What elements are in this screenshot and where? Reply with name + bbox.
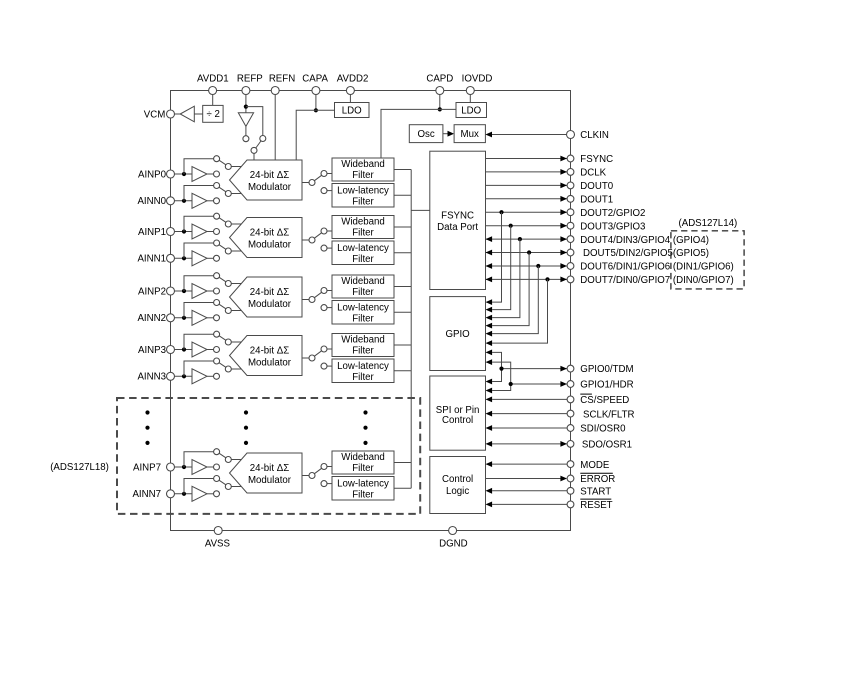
- pin AINP0: [138, 169, 175, 180]
- dashed group ADS127L18 extra channels 4-7: [117, 398, 420, 514]
- svg-text:AINN7: AINN7: [132, 489, 161, 500]
- pin SCLK/FLTR: [567, 409, 634, 420]
- wire AINN2 bypass: [184, 303, 214, 318]
- svg-text:Modulator: Modulator: [248, 358, 292, 369]
- svg-text:÷ 2: ÷ 2: [206, 109, 219, 120]
- switch SW3N (buffer bypass select): [219, 363, 231, 372]
- node buffer A3P output contact: [214, 347, 220, 353]
- svg-text:GPIO0/TDM: GPIO0/TDM: [580, 364, 633, 375]
- node low-latency 3 input contact: [321, 363, 327, 369]
- svg-text:RESET: RESET: [580, 500, 612, 511]
- svg-text:START: START: [580, 487, 611, 498]
- wire AINN to buffer: [174, 200, 192, 202]
- pin AINP2: [138, 286, 175, 297]
- modulator U1A (24-bit delta-sigma, channel 1): [230, 218, 303, 258]
- wire FSYNC net: [486, 156, 568, 162]
- junction AINP7: [182, 465, 186, 469]
- svg-text:AINN1: AINN1: [137, 254, 166, 265]
- wire DOUT6 to GPIO: [486, 266, 539, 337]
- ellipsis dots (channels 4-6 omitted): [244, 410, 248, 445]
- wire modulator output: [302, 475, 309, 477]
- svg-text:GPIO: GPIO: [445, 329, 470, 340]
- node AINP2 bypass contact: [214, 273, 220, 279]
- wire AINP2 bypass: [184, 276, 214, 291]
- svg-text:CLKIN: CLKIN: [580, 130, 609, 141]
- pin DOUT3/GPIO3: [567, 221, 645, 232]
- node AINN3 bypass contact: [214, 358, 220, 364]
- svg-text:AINP2: AINP2: [138, 286, 166, 297]
- label (DIN0/GPIO7): [673, 275, 734, 286]
- svg-text:AVDD1: AVDD1: [197, 73, 229, 84]
- wire switch to modulator N input: [231, 193, 241, 195]
- svg-text:DOUT2/GPIO2: DOUT2/GPIO2: [580, 208, 645, 219]
- node buffer A1N output contact: [214, 255, 220, 261]
- wire low-latency filter output to bus: [394, 311, 411, 313]
- wire AINP to buffer: [174, 173, 192, 175]
- node modulator 2 output contact: [309, 297, 315, 303]
- junction AINP0: [182, 172, 186, 176]
- svg-text:DOUT5/DIN2/GPIO5: DOUT5/DIN2/GPIO5: [583, 248, 673, 259]
- svg-text:Control: Control: [442, 415, 473, 426]
- wire to low-latency filter: [327, 365, 332, 367]
- divider block /2: [203, 105, 223, 122]
- modulator U3A (24-bit delta-sigma, channel 3): [230, 336, 303, 376]
- wire CS/SPEED net: [486, 397, 568, 403]
- wire SDO/OSR1 net: [486, 441, 568, 447]
- buffer A1P (input precharge buffer): [192, 224, 214, 239]
- filter U3L (Low-latency Filter, channel 3): [332, 359, 394, 383]
- wire switch to modulator P input: [231, 223, 241, 225]
- pin REFP: [237, 73, 263, 94]
- svg-text:24-bit ΔΣ: 24-bit ΔΣ: [250, 170, 289, 181]
- label (DIN1/GPIO6): [673, 262, 734, 273]
- svg-text:AVDD2: AVDD2: [337, 73, 369, 84]
- wire DOUT0 net: [486, 183, 568, 189]
- junction AINN2: [182, 316, 186, 320]
- svg-text:AINN0: AINN0: [137, 196, 166, 207]
- pin AINN0: [137, 196, 174, 207]
- svg-text:(ADS127L14): (ADS127L14): [679, 218, 738, 229]
- wire switch to modulator N input: [231, 310, 241, 312]
- svg-text:SCLK/FLTR: SCLK/FLTR: [583, 409, 635, 420]
- svg-text:24-bit ΔΣ: 24-bit ΔΣ: [250, 346, 289, 357]
- wire wideband filter output to bus: [394, 286, 411, 288]
- wire low-latency filter output to bus: [394, 194, 411, 196]
- filter U2W (Wideband Filter, channel 2): [332, 275, 394, 298]
- wire filter output bus: [410, 170, 412, 489]
- junction CAPA: [314, 108, 318, 112]
- node buffer A2N output contact: [214, 315, 220, 321]
- pin AINN2: [137, 313, 174, 324]
- block U-FSYNC (FSYNC Data Port): [430, 151, 486, 289]
- label (ADS127L14): [679, 218, 738, 229]
- svg-text:(DIN0/GPIO7): (DIN0/GPIO7): [673, 275, 734, 286]
- pin AINP3: [138, 345, 175, 356]
- buffer A7P (input precharge buffer): [192, 460, 214, 475]
- switch SW7N (buffer bypass select): [219, 480, 231, 489]
- svg-text:ERROR: ERROR: [580, 474, 615, 485]
- svg-text:Filter: Filter: [352, 287, 374, 298]
- wire AINP to buffer: [174, 290, 192, 292]
- wire DOUT5/DIN2/GPIO5 net: [486, 250, 568, 256]
- wire AINN0 bypass: [184, 186, 214, 201]
- wire DOUT6/DIN1/GPIO6 net: [486, 263, 568, 269]
- pin CAPD: [426, 73, 453, 94]
- node low-latency 7 input contact: [321, 481, 327, 487]
- pin DOUT6/DIN1/GPIO6: [567, 262, 670, 273]
- ellipsis dots (channels 4-6 omitted): [145, 410, 149, 445]
- switch SW3F (filter select): [314, 346, 327, 356]
- regulator LDO (digital): [456, 103, 487, 118]
- filter U7L (Low-latency Filter, channel 7): [332, 477, 394, 501]
- svg-text:DCLK: DCLK: [580, 168, 606, 179]
- wire DOUT3/GPIO3 net: [486, 223, 568, 229]
- buffer A-VCM (unity-gain, output to VCM pin): [174, 106, 202, 122]
- node low-latency 1 input contact: [321, 245, 327, 251]
- wire AINN to buffer: [174, 257, 192, 259]
- svg-text:CAPD: CAPD: [426, 73, 453, 84]
- modulator U7A (24-bit delta-sigma, channel 7): [230, 453, 303, 493]
- wire to wideband filter: [327, 466, 332, 468]
- pin DOUT2/GPIO2: [567, 208, 645, 219]
- junction DOUT4 tap: [518, 237, 522, 241]
- node AINP0 bypass contact: [214, 156, 220, 162]
- svg-text:Filter: Filter: [352, 346, 374, 357]
- wire AINN to buffer: [174, 375, 192, 377]
- wire low-latency filter output to bus: [394, 370, 411, 372]
- svg-text:AINP3: AINP3: [138, 345, 166, 356]
- junction GPIO1: [509, 382, 513, 386]
- svg-text:(DIN1/GPIO6): (DIN1/GPIO6): [673, 262, 734, 273]
- svg-text:Modulator: Modulator: [248, 299, 292, 310]
- switch SW3P (buffer bypass select): [219, 336, 231, 345]
- wire digital LDO output net: [381, 109, 456, 158]
- svg-text:GPIO1/HDR: GPIO1/HDR: [580, 379, 633, 390]
- wire modulator output: [302, 357, 309, 359]
- wire DOUT7/DIN0/GPIO7 net: [486, 277, 568, 283]
- pin AVDD1: [197, 73, 229, 94]
- node AINN7 bypass contact: [214, 476, 220, 482]
- svg-text:Low-latency: Low-latency: [337, 479, 389, 490]
- switch SW0N (buffer bypass select): [219, 187, 231, 196]
- junction REFP: [244, 105, 248, 109]
- wire DOUT5 to GPIO: [486, 253, 530, 329]
- wire MODE net: [486, 461, 568, 467]
- buffer A0P (input precharge buffer): [192, 167, 214, 182]
- svg-text:DOUT3/GPIO3: DOUT3/GPIO3: [580, 221, 645, 232]
- wire wideband filter output to bus: [394, 169, 411, 171]
- junction AINP3: [182, 347, 186, 351]
- wire to low-latency filter: [327, 307, 332, 309]
- node modulator 1 output contact: [309, 237, 315, 243]
- wire CAPD stub: [439, 94, 441, 109]
- wire DOUT4 to GPIO: [486, 239, 520, 320]
- pin SDI/OSR0: [567, 424, 626, 435]
- wire CAPA net to modulator: [296, 110, 334, 160]
- wire switch to modulator P input: [231, 459, 241, 461]
- switch SW2N (buffer bypass select): [219, 304, 231, 313]
- svg-text:24-bit ΔΣ: 24-bit ΔΣ: [250, 463, 289, 474]
- filter U3W (Wideband Filter, channel 3): [332, 334, 394, 357]
- junction AINP2: [182, 289, 186, 293]
- wire AINN1 bypass: [184, 243, 214, 258]
- wire DCLK net: [486, 169, 568, 175]
- filter U0W (Wideband Filter, channel 0): [332, 158, 394, 181]
- wire DOUT3 to GPIO: [486, 226, 511, 313]
- wire DOUT4/DIN3/GPIO4 net: [486, 236, 568, 242]
- svg-text:Filter: Filter: [352, 228, 374, 239]
- svg-text:DOUT7/DIN0/GPIO7: DOUT7/DIN0/GPIO7: [580, 275, 670, 286]
- svg-text:(GPIO4): (GPIO4): [673, 235, 709, 246]
- wire switch to modulator N input: [231, 368, 241, 370]
- svg-text:SDI/OSR0: SDI/OSR0: [580, 424, 626, 435]
- filter U1L (Low-latency Filter, channel 1): [332, 241, 394, 265]
- junction DOUT6 tap: [536, 264, 540, 268]
- pin IOVDD: [462, 73, 493, 94]
- wire to wideband filter: [327, 348, 332, 350]
- block U-SPI (SPI or Pin Control): [430, 376, 486, 450]
- wire to wideband filter: [327, 230, 332, 232]
- node AINN2 bypass contact: [214, 300, 220, 306]
- switch SW0P (buffer bypass select): [219, 160, 231, 169]
- wire AINN to buffer: [174, 493, 192, 495]
- svg-text:Low-latency: Low-latency: [337, 361, 389, 372]
- node buffer A0P output contact: [214, 171, 220, 177]
- wire AINN to buffer: [174, 317, 192, 319]
- pin GPIO1/HDR: [567, 379, 633, 390]
- node AINP3 bypass contact: [214, 331, 220, 337]
- modulator U2A (24-bit delta-sigma, channel 2): [230, 277, 303, 317]
- svg-text:REFP: REFP: [237, 73, 263, 84]
- svg-text:Modulator: Modulator: [248, 240, 292, 251]
- node modulator 0 output contact: [309, 180, 315, 186]
- svg-text:(ADS127L18): (ADS127L18): [50, 462, 109, 473]
- pin AINP1: [138, 227, 175, 238]
- switch SW1N (buffer bypass select): [219, 245, 231, 254]
- svg-text:Wideband: Wideband: [341, 452, 385, 463]
- switch SW-REF (selects buffered/bypass reference): [251, 141, 261, 153]
- svg-text:MODE: MODE: [580, 460, 610, 471]
- dashed group ADS127L14 pin naming: [671, 231, 744, 289]
- svg-text:FSYNC: FSYNC: [580, 154, 613, 165]
- svg-text:Filter: Filter: [352, 197, 374, 208]
- svg-text:SPI or Pin: SPI or Pin: [436, 405, 480, 416]
- wire DOUT2/GPIO2 net: [486, 209, 568, 215]
- junction AINP1: [182, 229, 186, 233]
- wire switch to modulator P input: [231, 283, 241, 285]
- switch SW1F (filter select): [314, 228, 327, 238]
- oscillator Osc: [409, 125, 443, 143]
- svg-text:AINN3: AINN3: [137, 372, 166, 383]
- wire AINP0 bypass: [184, 159, 214, 174]
- wire wideband filter output to bus: [394, 344, 411, 346]
- node modulator 3 output contact: [309, 355, 315, 361]
- pin DOUT7/DIN0/GPIO7: [567, 275, 670, 286]
- svg-text:Wideband: Wideband: [341, 276, 385, 287]
- wire modulator output: [302, 182, 309, 184]
- svg-text:SDO/OSR1: SDO/OSR1: [582, 440, 632, 451]
- filter U1W (Wideband Filter, channel 1): [332, 216, 394, 239]
- node AINP7 bypass contact: [214, 449, 220, 455]
- buffer A0N (input precharge buffer): [192, 193, 214, 208]
- label (ADS127L18): [50, 462, 109, 473]
- buffer A1N (input precharge buffer): [192, 251, 214, 266]
- svg-text:Mux: Mux: [461, 129, 479, 140]
- wire SDI/OSR0 net: [486, 425, 568, 431]
- wire SCLK/FLTR net: [486, 411, 568, 417]
- node buffer A3N output contact: [214, 373, 220, 379]
- svg-text:Wideband: Wideband: [341, 159, 385, 170]
- svg-text:Modulator: Modulator: [248, 182, 292, 193]
- node buffer A1P output contact: [214, 229, 220, 235]
- junction DOUT5 tap: [527, 250, 531, 254]
- pin DGND: [439, 527, 468, 550]
- pin AINN7: [132, 489, 174, 500]
- svg-text:IOVDD: IOVDD: [462, 73, 493, 84]
- pin FSYNC: [567, 154, 613, 165]
- node AINP1 bypass contact: [214, 213, 220, 219]
- wire REFP bypass branch: [246, 107, 263, 136]
- svg-text:Filter: Filter: [352, 314, 374, 325]
- svg-text:24-bit ΔΣ: 24-bit ΔΣ: [250, 287, 289, 298]
- ellipsis dots (channels 4-6 omitted): [363, 410, 367, 445]
- svg-text:Filter: Filter: [352, 463, 374, 474]
- node buffer A7N output contact: [214, 491, 220, 497]
- wire to wideband filter: [327, 173, 332, 175]
- wire switch to modulator N input: [231, 250, 241, 252]
- wire DOUT2 to GPIO: [486, 212, 502, 305]
- mux Mux (clock select): [454, 125, 485, 143]
- svg-text:DGND: DGND: [439, 539, 468, 550]
- wire AVDD1 stub to divide-by-2: [212, 94, 214, 105]
- node modulator 7 output contact: [309, 473, 315, 479]
- node buffer A7P output contact: [214, 464, 220, 470]
- wire CLKIN to Mux: [485, 132, 566, 138]
- junction DOUT3 tap: [509, 224, 513, 228]
- svg-text:AVSS: AVSS: [205, 539, 231, 550]
- svg-text:Filter: Filter: [352, 170, 374, 181]
- wire AINP to buffer: [174, 349, 192, 351]
- svg-text:CAPA: CAPA: [302, 73, 328, 84]
- switch SW2P (buffer bypass select): [219, 277, 231, 286]
- buffer A7N (input precharge buffer): [192, 486, 214, 501]
- pin AVSS: [205, 527, 231, 550]
- svg-text:Wideband: Wideband: [341, 335, 385, 346]
- block U-GPIO (GPIO): [430, 297, 486, 371]
- wire RESET net: [486, 502, 568, 508]
- pin VCM: [144, 109, 175, 120]
- wire switch to modulator P input: [231, 341, 241, 343]
- svg-text:AINP7: AINP7: [133, 462, 161, 473]
- svg-text:(GPIO5): (GPIO5): [673, 248, 709, 259]
- svg-text:AINP1: AINP1: [138, 227, 166, 238]
- wire switch to modulator N input: [231, 486, 241, 488]
- wire to low-latency filter: [327, 247, 332, 249]
- modulator U0A (24-bit delta-sigma, channel 0): [230, 160, 303, 200]
- switch SW1P (buffer bypass select): [219, 218, 231, 227]
- buffer A3P (input precharge buffer): [192, 342, 214, 357]
- junction AINN0: [182, 199, 186, 203]
- wire SW-REF to modulator reference input: [253, 153, 255, 160]
- pin CLKIN: [567, 130, 609, 141]
- wire to low-latency filter: [327, 483, 332, 485]
- node buffer A0N output contact: [214, 198, 220, 204]
- pin DOUT1: [567, 195, 613, 206]
- junction AINN1: [182, 256, 186, 260]
- regulator LDO (analog): [335, 103, 370, 118]
- buffer A2N (input precharge buffer): [192, 310, 214, 325]
- pin CS/SPEED: [567, 394, 629, 406]
- pin REFN: [269, 73, 295, 94]
- wire DOUT1 net: [486, 196, 568, 202]
- pin START: [567, 487, 611, 498]
- switch SW7P (buffer bypass select): [219, 453, 231, 462]
- buffer A2P (input precharge buffer): [192, 284, 214, 299]
- wire to low-latency filter: [327, 190, 332, 192]
- junction GPIO0: [499, 367, 503, 371]
- node REF bypass contact: [260, 136, 266, 142]
- pin ERROR: [567, 473, 615, 485]
- svg-text:Data Port: Data Port: [437, 222, 478, 233]
- svg-text:DOUT1: DOUT1: [580, 195, 613, 206]
- pin CAPA: [302, 73, 328, 94]
- svg-text:Filter: Filter: [352, 372, 374, 383]
- pin DOUT0: [567, 181, 614, 192]
- switch SW7F (filter select): [314, 464, 327, 474]
- wire DOUT7 to GPIO: [486, 279, 548, 346]
- junction DOUT7 tap: [545, 277, 549, 281]
- wire low-latency filter output to bus: [394, 252, 411, 254]
- svg-text:AINN2: AINN2: [137, 313, 166, 324]
- svg-text:Low-latency: Low-latency: [337, 186, 389, 197]
- pin AINN1: [137, 254, 174, 265]
- pin AINP7: [133, 462, 175, 473]
- svg-text:CS/SPEED: CS/SPEED: [580, 395, 629, 406]
- svg-text:Logic: Logic: [446, 486, 469, 497]
- svg-text:LDO: LDO: [342, 105, 362, 116]
- node low-latency 0 input contact: [321, 188, 327, 194]
- wire GPIO1 net (GPIO block / SPI / pin): [486, 359, 568, 393]
- filter U2L (Low-latency Filter, channel 2): [332, 301, 394, 325]
- wire REFP stub: [245, 94, 247, 113]
- wire wideband filter output to bus: [394, 462, 411, 464]
- svg-text:Osc: Osc: [417, 129, 434, 140]
- svg-text:REFN: REFN: [269, 73, 295, 84]
- wire AVDD2 stub to LDO: [349, 94, 351, 102]
- wire START net: [486, 488, 568, 494]
- junction CAPD: [438, 107, 442, 111]
- wire modulator output: [302, 239, 309, 241]
- svg-text:Control: Control: [442, 474, 473, 485]
- node low-latency 2 input contact: [321, 305, 327, 311]
- junction AINN3: [182, 374, 186, 378]
- pin DOUT5/DIN2/GPIO5: [567, 248, 673, 259]
- pin SDO/OSR1: [567, 440, 632, 451]
- wire Osc to Mux: [443, 131, 454, 137]
- node AINN1 bypass contact: [214, 240, 220, 246]
- node buffer A2P output contact: [214, 288, 220, 294]
- svg-text:DOUT0: DOUT0: [580, 181, 613, 192]
- buffer A-REF (reference buffer, pointing down): [238, 113, 253, 136]
- switch SW0F (filter select): [314, 171, 327, 181]
- chip outline (ADS127L18 top-level boundary): [171, 91, 571, 531]
- junction AINN7: [182, 492, 186, 496]
- wire AINP3 bypass: [184, 334, 214, 349]
- wire switch to modulator P input: [231, 166, 241, 168]
- wire AINP1 bypass: [184, 216, 214, 231]
- svg-text:Low-latency: Low-latency: [337, 243, 389, 254]
- junction DOUT2 tap: [499, 210, 503, 214]
